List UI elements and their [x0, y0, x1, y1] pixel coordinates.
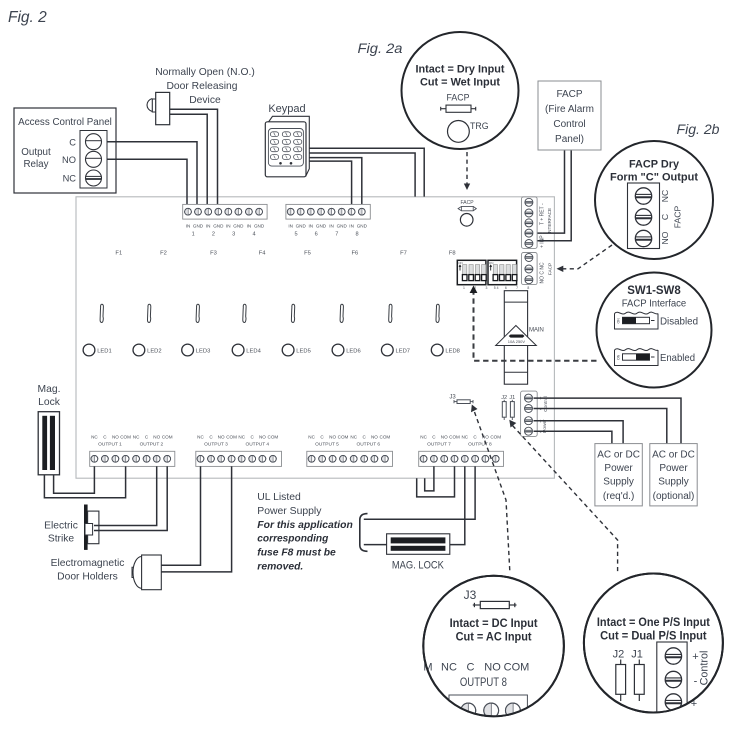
- svg-text:Intact = Dry Input: Intact = Dry Input: [416, 64, 505, 76]
- svg-text:Supply: Supply: [658, 477, 689, 488]
- svg-text:GND: GND: [337, 224, 348, 229]
- svg-text:NO: NO: [329, 434, 336, 439]
- svg-text:4: 4: [252, 232, 255, 238]
- svg-text:OUTPUT 6: OUTPUT 6: [356, 442, 380, 448]
- svg-text:7: 7: [335, 232, 338, 238]
- wire: power - to required supply: [534, 431, 612, 443]
- svg-text:F7: F7: [400, 251, 407, 257]
- wire: mag lock to output1 COM: [44, 466, 125, 497]
- svg-text:Panel): Panel): [555, 134, 584, 145]
- svg-text:COM: COM: [226, 434, 237, 439]
- svg-text:LED3: LED3: [196, 349, 211, 355]
- svg-text:FACP: FACP: [447, 93, 470, 103]
- dashed arrow: J3 circle to board J3: [471, 405, 510, 572]
- svg-text:COM: COM: [449, 434, 460, 439]
- P/S detail circle: one/dual power supply jumpers: [584, 574, 723, 717]
- AC or DC power supply (optional) box: [650, 444, 697, 506]
- arrowhead at DIP switches: [470, 286, 478, 294]
- svg-text:Mag.: Mag.: [38, 384, 61, 395]
- svg-text:3: 3: [232, 232, 235, 238]
- svg-text:Keypad: Keypad: [268, 103, 305, 115]
- svg-text:fuse F8 must be: fuse F8 must be: [257, 548, 336, 559]
- svg-text:Electric: Electric: [44, 521, 78, 532]
- svg-text:FACP: FACP: [556, 89, 582, 100]
- wire: supply to mag lock bottom: [364, 544, 387, 546]
- svg-text:C: C: [660, 214, 670, 220]
- svg-text:LED6: LED6: [346, 349, 361, 355]
- svg-text:F5: F5: [304, 251, 311, 257]
- svg-text:NC: NC: [461, 434, 468, 439]
- svg-text:COM: COM: [380, 434, 391, 439]
- svg-text:Fig. 2a: Fig. 2a: [358, 41, 404, 56]
- svg-text:GND: GND: [193, 224, 204, 229]
- terminal strip outputs 1-2: [90, 434, 175, 466]
- wire: door holder to output3 COM: [161, 466, 231, 572]
- Fig 2b detail circle: FACP dry output: [595, 141, 713, 259]
- svg-text:Power Supply: Power Supply: [257, 506, 322, 517]
- wire: relay NO to input terminal 1-IN: [107, 159, 187, 207]
- svg-text:GND: GND: [316, 224, 327, 229]
- main fuse (10A 250V): [496, 291, 544, 385]
- wire: release device to input terminal 2-IN: [170, 114, 208, 207]
- svg-text:FACP Dry: FACP Dry: [629, 159, 680, 171]
- svg-text:Device: Device: [189, 95, 221, 106]
- svg-text:corresponding: corresponding: [257, 534, 329, 545]
- svg-text:Door Releasing: Door Releasing: [167, 81, 238, 92]
- svg-text:GND: GND: [357, 224, 368, 229]
- svg-text:F8: F8: [449, 251, 456, 257]
- svg-text:IN: IN: [309, 224, 314, 229]
- svg-text:NC: NC: [441, 662, 457, 674]
- svg-text:NC: NC: [350, 434, 357, 439]
- svg-text:+ INP -: + INP -: [540, 232, 546, 248]
- wire: control + to optional supply: [534, 398, 682, 444]
- jumper J1 on board: [509, 395, 515, 420]
- svg-text:LED2: LED2: [147, 349, 162, 355]
- svg-text:T + RET -: T + RET -: [540, 203, 546, 225]
- wire: strike to output2 COM: [94, 466, 167, 530]
- LED5: [282, 344, 311, 356]
- svg-text:Form "C" Output: Form "C" Output: [610, 172, 698, 184]
- keypad: [265, 103, 309, 177]
- wire: keypad line 2 to board edge: [309, 153, 415, 197]
- svg-text:NO: NO: [484, 662, 501, 674]
- svg-text:GND: GND: [296, 224, 307, 229]
- terminal strip outputs 5-6: [307, 434, 393, 466]
- svg-text:COM: COM: [120, 434, 131, 439]
- wire: FACP panel to interface terminal 5: [529, 150, 571, 241]
- svg-text:COM: COM: [268, 434, 279, 439]
- wire: door holder to output3 NC: [161, 466, 200, 565]
- svg-text:Enabled: Enabled: [660, 353, 695, 364]
- svg-text:MAG. LOCK: MAG. LOCK: [392, 560, 445, 572]
- svg-text:NC: NC: [133, 434, 140, 439]
- svg-text:Intact = DC Input: Intact = DC Input: [450, 618, 538, 630]
- wire: release device to input terminal 2-GND: [170, 109, 218, 207]
- svg-text:COM: COM: [338, 434, 349, 439]
- svg-text:-: -: [694, 676, 698, 688]
- terminal strip inputs 1-4: [183, 204, 267, 237]
- svg-text:F3: F3: [210, 251, 217, 257]
- svg-text:Door Holders: Door Holders: [57, 572, 118, 583]
- fuse F5 body: [291, 304, 294, 322]
- fuse F7 body: [389, 304, 392, 322]
- svg-text:NO: NO: [441, 434, 448, 439]
- jumper J2 on board: [501, 395, 507, 420]
- svg-text:FACP: FACP: [548, 263, 553, 275]
- svg-text:(req'd.): (req'd.): [603, 491, 634, 502]
- svg-text:AC or DC: AC or DC: [652, 450, 695, 461]
- svg-text:Cut = AC Input: Cut = AC Input: [456, 632, 532, 644]
- svg-text:5: 5: [294, 232, 297, 238]
- svg-text:F6: F6: [352, 251, 359, 257]
- svg-text:COM: COM: [162, 434, 173, 439]
- svg-text:NC: NC: [91, 434, 98, 439]
- svg-text:COM: COM: [504, 662, 530, 674]
- svg-text:1: 1: [192, 232, 195, 238]
- svg-text:OUTPUT 5: OUTPUT 5: [315, 442, 339, 448]
- svg-text:Power: Power: [659, 463, 688, 474]
- svg-text:Power: Power: [604, 463, 633, 474]
- svg-text:2: 2: [212, 232, 215, 238]
- FACP input fuse on board: [458, 200, 476, 211]
- svg-text:IN: IN: [329, 224, 334, 229]
- svg-text:Disabled: Disabled: [660, 317, 698, 328]
- svg-text:LED4: LED4: [246, 349, 261, 355]
- main control board outline: [76, 197, 554, 478]
- svg-text:10A 250V: 10A 250V: [508, 339, 526, 344]
- svg-text:GND: GND: [254, 224, 265, 229]
- terminal strip outputs 7-8: [419, 434, 504, 466]
- fuse F2 body: [147, 304, 150, 322]
- LED1: [83, 344, 112, 356]
- wire: FACP panel to interface terminal 4: [529, 150, 565, 233]
- svg-text:NO: NO: [153, 434, 160, 439]
- svg-text:F2: F2: [160, 251, 167, 257]
- svg-text:Lock: Lock: [38, 397, 61, 408]
- svg-text:NC: NC: [660, 190, 670, 202]
- fuse F8 body: [436, 304, 439, 322]
- svg-text:COM: COM: [490, 434, 501, 439]
- terminal strip outputs 3-4: [196, 434, 282, 466]
- svg-text:NO C NC: NO C NC: [540, 262, 546, 284]
- power supply bracket: [360, 514, 368, 552]
- LED7: [381, 344, 410, 356]
- svg-text:+: +: [539, 419, 542, 425]
- svg-text:TRG: TRG: [470, 121, 489, 131]
- svg-text:6: 6: [315, 232, 318, 238]
- svg-text:J2: J2: [613, 649, 625, 661]
- electromagnetic door holder: [51, 555, 162, 590]
- LED4: [232, 344, 261, 356]
- svg-text:F1: F1: [115, 251, 122, 257]
- svg-text:Control: Control: [553, 119, 585, 130]
- svg-text:LED1: LED1: [97, 349, 112, 355]
- svg-text:NO: NO: [660, 231, 670, 244]
- electric strike: [44, 505, 99, 550]
- svg-text:INTERFACE: INTERFACE: [547, 208, 552, 234]
- svg-text:LED5: LED5: [296, 349, 311, 355]
- LED3: [182, 344, 211, 356]
- FACP fire alarm control panel box: [538, 81, 601, 150]
- svg-text:Intact = One P/S Input: Intact = One P/S Input: [597, 617, 710, 629]
- svg-text:Supply: Supply: [603, 477, 634, 488]
- wire: control - to optional supply: [534, 409, 667, 444]
- svg-text:8: 8: [355, 232, 358, 238]
- svg-text:C: C: [69, 138, 76, 148]
- svg-text:NO: NO: [218, 434, 225, 439]
- wire: output7 C loop: [425, 466, 434, 491]
- interface terminal strip: [522, 197, 553, 249]
- svg-text:Access Control Panel: Access Control Panel: [18, 117, 112, 128]
- AC or DC power supply (required) box: [595, 444, 642, 506]
- svg-text:NC: NC: [197, 434, 204, 439]
- svg-text:OUTPUT 3: OUTPUT 3: [204, 442, 228, 448]
- svg-text:IN: IN: [349, 224, 354, 229]
- svg-text:NC: NC: [63, 174, 77, 184]
- svg-text:ON: ON: [616, 318, 620, 324]
- svg-text:(Fire Alarm: (Fire Alarm: [545, 104, 594, 115]
- svg-text:5 6 7 8: 5 6 7 8: [494, 286, 534, 290]
- svg-text:+: +: [539, 396, 542, 402]
- wire: keypad line 3 to input terminal 8-GND: [309, 158, 362, 207]
- svg-text:Control: Control: [699, 651, 711, 686]
- note: UL listed power supply: [257, 492, 353, 573]
- svg-text:NO: NO: [62, 155, 76, 165]
- svg-text:Strike: Strike: [48, 534, 75, 545]
- wire: mag lock to output1 NC: [54, 466, 95, 493]
- svg-text:FACP: FACP: [673, 206, 683, 229]
- svg-text:OUTPUT 8: OUTPUT 8: [468, 442, 492, 448]
- dashed arrow: Fig 2a to board FACP: [464, 152, 470, 190]
- svg-text:J1: J1: [631, 649, 643, 661]
- svg-text:Normally Open (N.O.): Normally Open (N.O.): [155, 67, 255, 78]
- mag lock (left): [38, 384, 61, 475]
- svg-text:LED7: LED7: [396, 349, 411, 355]
- LED6: [332, 344, 361, 356]
- svg-text:J3: J3: [449, 395, 456, 401]
- svg-text:Cut = Dual P/S Input: Cut = Dual P/S Input: [600, 631, 707, 643]
- jumper J3 on board: [449, 395, 473, 404]
- svg-text:Fig. 2b: Fig. 2b: [677, 122, 721, 137]
- svg-text:removed.: removed.: [257, 562, 303, 573]
- svg-text:OUTPUT 1: OUTPUT 1: [98, 442, 122, 448]
- terminal strip inputs 5-8: [286, 204, 370, 237]
- wire: relay C to input terminal 1-GND: [107, 142, 197, 207]
- svg-text:Fig. 2: Fig. 2: [8, 9, 47, 26]
- wire: output7 NO loop: [417, 466, 455, 497]
- svg-text:IN: IN: [247, 224, 252, 229]
- dashed line: SW circle to DIP switches: [474, 292, 597, 361]
- svg-text:Relay: Relay: [23, 159, 48, 170]
- svg-text:FACP: FACP: [460, 200, 474, 206]
- svg-text:Cut = Wet Input: Cut = Wet Input: [420, 77, 500, 89]
- wire: keypad line 4 to input terminal 8-IN: [309, 161, 351, 207]
- TRG terminal circle on board: [460, 214, 473, 227]
- dashed arrow: Fig 2b to FACP relay strip: [557, 245, 613, 272]
- fuse F1 body: [100, 304, 103, 322]
- FACP relay terminal strip: [522, 253, 553, 285]
- svg-text:NC: NC: [308, 434, 315, 439]
- svg-text:LED8: LED8: [445, 349, 460, 355]
- fuse F4 body: [243, 304, 246, 322]
- svg-text:IN: IN: [288, 224, 293, 229]
- fuse F3 body: [196, 304, 199, 322]
- dashed arrow: P/S circle to board J1/J2: [509, 420, 617, 572]
- svg-text:IN: IN: [226, 224, 231, 229]
- svg-text:F4: F4: [259, 251, 267, 257]
- svg-text:NO: NO: [112, 434, 119, 439]
- svg-text:GND: GND: [233, 224, 244, 229]
- wire: output8 NC to mag lock bottom: [450, 466, 465, 544]
- svg-text:(optional): (optional): [653, 491, 695, 502]
- svg-text:FACP Interface: FACP Interface: [622, 299, 687, 310]
- DIP switch block SW1-SW4: [457, 260, 502, 290]
- fuse F6 body: [340, 304, 343, 322]
- svg-text:ON: ON: [616, 354, 620, 360]
- SW1-SW8 detail circle: FACP interface switches: [597, 273, 712, 388]
- svg-text:NO: NO: [259, 434, 266, 439]
- wire: strike to output2 NO: [94, 466, 157, 525]
- J3 detail circle: DC/AC input jumper: [423, 576, 564, 729]
- svg-text:IN: IN: [186, 224, 191, 229]
- wire: power + to required supply: [534, 421, 624, 444]
- svg-text:Electromagnetic: Electromagnetic: [51, 558, 125, 569]
- svg-text:Output: Output: [21, 147, 51, 158]
- svg-text:GND: GND: [213, 224, 224, 229]
- svg-text:OUTPUT 2: OUTPUT 2: [140, 442, 164, 448]
- svg-text:For this application: For this application: [257, 520, 353, 531]
- mag lock (bottom): [387, 534, 450, 572]
- svg-text:OUTPUT 8: OUTPUT 8: [460, 677, 507, 689]
- svg-text:UL Listed: UL Listed: [257, 492, 301, 503]
- LED2: [133, 344, 162, 356]
- svg-text:NC: NC: [238, 434, 245, 439]
- Fig 2a detail circle: FACP input: [402, 32, 519, 149]
- svg-text:NC: NC: [420, 434, 427, 439]
- LED8: [431, 344, 460, 356]
- svg-text:NO: NO: [371, 434, 378, 439]
- svg-text:J3: J3: [464, 588, 477, 602]
- svg-text:MAIN: MAIN: [529, 327, 544, 334]
- svg-text:SW1-SW8: SW1-SW8: [627, 285, 681, 297]
- wire: supply to output8 C: [364, 466, 475, 519]
- power/control terminal strip: [521, 391, 549, 436]
- svg-text:IN: IN: [206, 224, 211, 229]
- svg-text:C: C: [467, 662, 475, 674]
- N.O. door releasing device: [147, 67, 255, 125]
- wire: keypad line 1 to board edge: [309, 148, 424, 196]
- access control panel: [14, 108, 116, 193]
- svg-text:OUTPUT 7: OUTPUT 7: [427, 442, 451, 448]
- svg-text:OUTPUT 4: OUTPUT 4: [245, 442, 269, 448]
- DIP switch block SW5-SW8: [488, 260, 533, 290]
- svg-text:AC or DC: AC or DC: [597, 450, 640, 461]
